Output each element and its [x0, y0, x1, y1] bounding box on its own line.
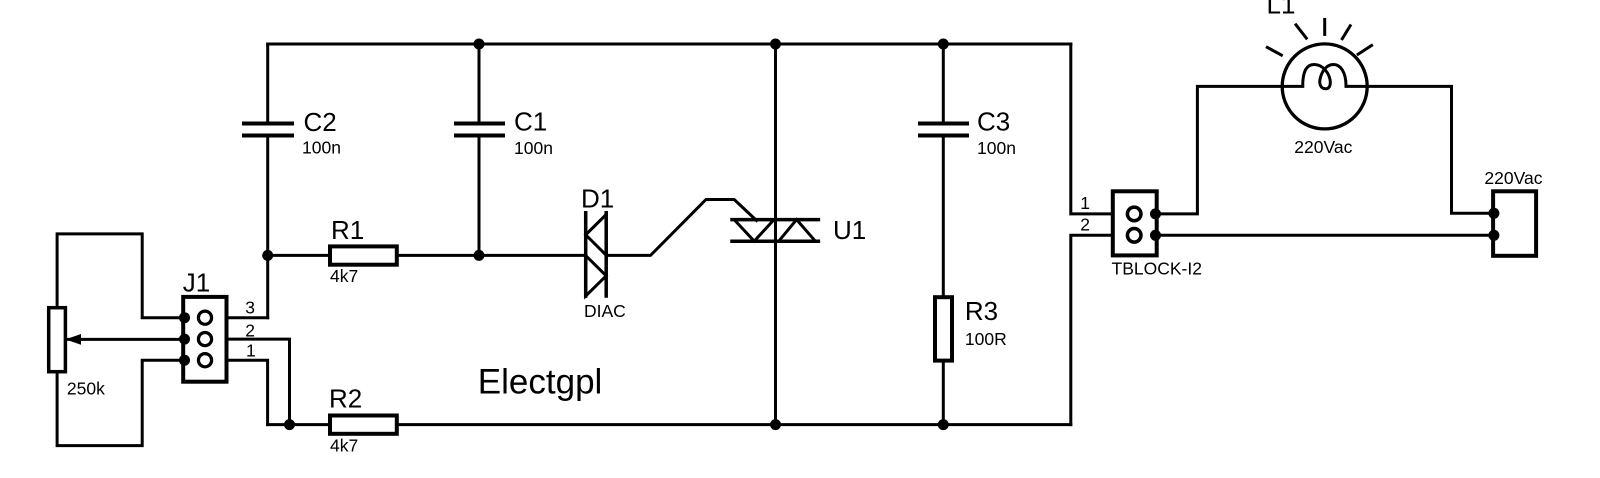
- triac U1 main vertical lower: [774, 220, 777, 425]
- svg-text:220Vac: 220Vac: [1484, 168, 1542, 188]
- wire top bus (C2 to right column): [268, 43, 1071, 46]
- wire DIAC to TRIAC gate: [606, 200, 756, 256]
- node junction dot top C1: [474, 39, 485, 50]
- wire J1 pin 2 to riser: [227, 339, 290, 425]
- capacitor C1: [456, 124, 503, 136]
- svg-text:100n: 100n: [302, 138, 341, 158]
- wire J1 pin 3 to riser: [227, 316, 268, 319]
- lamp rays: [1267, 19, 1371, 55]
- J1 pin 1 circle: [198, 354, 211, 367]
- triac U1 right triangle: [779, 220, 816, 242]
- wire J1 pin 1 to riser: [227, 360, 268, 424]
- node junction dot top C3: [938, 39, 949, 50]
- svg-text:2: 2: [245, 321, 255, 341]
- triac U1 bottom bar: [732, 239, 818, 243]
- TBLOCK pin 2 circle: [1127, 229, 1141, 243]
- J1 pin 1 junction dot: [179, 355, 190, 366]
- lamp L1 circle: [1282, 44, 1367, 129]
- source terminal dot upper: [1488, 208, 1499, 219]
- node junction dot R1/C1: [474, 250, 485, 261]
- svg-text:1: 1: [1080, 193, 1090, 213]
- svg-text:1: 1: [246, 341, 256, 361]
- svg-text:L1: L1: [1267, 0, 1296, 20]
- lamp filament chord right: [1346, 85, 1366, 88]
- wire R3 bottom: [942, 361, 945, 425]
- wire lamp to source: [1367, 86, 1493, 213]
- TBLOCK pin 1 dot: [1150, 208, 1161, 219]
- wire pot top to J1 pin 3: [57, 234, 183, 318]
- diac D1 left bar: [584, 213, 588, 296]
- node junction dot bottom pin2: [284, 419, 295, 430]
- potentiometer body 250k: [49, 308, 66, 372]
- wire TBLOCK pin2 to source: [1156, 234, 1494, 237]
- wire right column lower: [1071, 235, 1113, 424]
- J1 pin 2 circle: [198, 333, 211, 346]
- svg-text:C2: C2: [304, 107, 337, 137]
- svg-text:220Vac: 220Vac: [1294, 137, 1352, 157]
- node junction dot top TRIAC: [770, 39, 781, 50]
- wire bottom bus left (J1 pin1 riser corner to R2): [268, 423, 330, 426]
- svg-text:R2: R2: [329, 384, 362, 414]
- svg-text:R3: R3: [965, 296, 998, 326]
- svg-text:TBLOCK-I2: TBLOCK-I2: [1112, 258, 1202, 278]
- triac U1 top bar: [732, 218, 818, 222]
- svg-text:4k7: 4k7: [330, 266, 358, 286]
- connector J1 body: [183, 297, 226, 382]
- node junction dot bottom TRIAC: [770, 419, 781, 430]
- svg-text:D1: D1: [581, 184, 614, 214]
- svg-text:3: 3: [245, 298, 255, 318]
- svg-text:2: 2: [1080, 215, 1090, 235]
- triac U1 left triangle: [734, 220, 774, 242]
- wire C3 bottom to R3: [942, 138, 945, 298]
- capacitor C2: [244, 124, 292, 136]
- diac D1 top triangle: [586, 215, 607, 256]
- svg-text:C3: C3: [977, 106, 1010, 136]
- resistor R2: [330, 416, 397, 434]
- wire bottom bus right: [397, 423, 1071, 426]
- svg-text:250k: 250k: [67, 379, 105, 399]
- wire C1 bottom to R1 wire: [478, 138, 481, 256]
- capacitor C3: [920, 124, 967, 136]
- terminal block TBLOCK-I2 body: [1113, 191, 1157, 255]
- potentiometer wiper arrowhead: [66, 334, 82, 345]
- diac D1 bottom triangle: [586, 256, 607, 296]
- svg-text:J1: J1: [183, 267, 210, 297]
- svg-text:100n: 100n: [514, 138, 553, 158]
- resistor R3: [935, 297, 952, 360]
- svg-text:4k7: 4k7: [330, 435, 358, 455]
- wire pot bottom to J1 pin 1: [57, 360, 183, 445]
- lamp filament chord left: [1283, 85, 1303, 88]
- wire C1 column upper: [478, 44, 481, 122]
- lamp filament loops: [1303, 65, 1346, 89]
- J1 pin 2 junction dot: [179, 334, 190, 345]
- wire R1 left (junction to body): [268, 254, 330, 257]
- wire TBLOCK pin1 to lamp: [1156, 86, 1283, 213]
- svg-text:100n: 100n: [977, 138, 1016, 158]
- svg-text:DIAC: DIAC: [584, 301, 626, 321]
- wire right column upper: [1071, 44, 1113, 214]
- svg-text:R1: R1: [331, 215, 364, 245]
- triac U1 main vertical upper: [774, 44, 777, 220]
- node junction dot R1 left: [262, 250, 273, 261]
- wire C2 bottom to R1 junction to J1 pin3 riser: [266, 138, 269, 318]
- wire R1 right to DIAC: [397, 254, 586, 257]
- resistor R1: [330, 246, 397, 264]
- J1 pin 3 junction dot: [179, 312, 190, 323]
- svg-text:100R: 100R: [965, 329, 1007, 349]
- source terminal dot lower: [1488, 230, 1499, 241]
- wire C2 column upper: [266, 44, 269, 122]
- diac D1 right bar: [604, 213, 608, 296]
- svg-text:C1: C1: [514, 106, 547, 136]
- wire pot wiper to J1 pin 2: [68, 338, 183, 341]
- TBLOCK pin 1 circle: [1127, 207, 1141, 221]
- TBLOCK pin 2 dot: [1150, 230, 1161, 241]
- source 220Vac body: [1493, 191, 1536, 256]
- svg-text:Electgpl: Electgpl: [478, 363, 603, 402]
- wire C3 column upper: [942, 44, 945, 122]
- svg-text:U1: U1: [833, 215, 866, 245]
- node junction dot bottom R3: [938, 419, 949, 430]
- J1 pin 3 circle: [198, 311, 211, 324]
